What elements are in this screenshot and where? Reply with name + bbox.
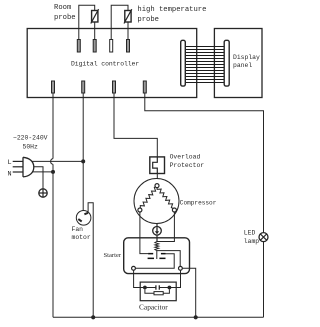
starter node B wire to right terminal bbox=[157, 251, 180, 267]
top pin 1 bbox=[77, 40, 80, 53]
fan motor hook wire bbox=[88, 203, 93, 317]
room probe loop wire bbox=[79, 5, 95, 39]
wire L to junction bbox=[32, 160, 84, 162]
wire right terminal to bottom rail bbox=[182, 268, 195, 317]
wire protector to compressor bbox=[156, 174, 158, 184]
starter bottom-left terminal bbox=[132, 266, 136, 270]
svg-text:lamp: lamp bbox=[244, 238, 260, 245]
compressor right terminal bbox=[172, 208, 176, 212]
wire pin2 down to fan motor bbox=[82, 93, 84, 211]
bottom pin 1 bbox=[52, 81, 55, 93]
starter center contact stem bbox=[156, 251, 158, 259]
bottom rail bbox=[53, 316, 264, 318]
ribbon cable wires bbox=[185, 47, 224, 83]
room probe sensor bbox=[92, 11, 98, 23]
starter bottom-right terminal bbox=[179, 266, 183, 270]
svg-text:Capacitor: Capacitor bbox=[139, 303, 168, 312]
fan motor circle bbox=[76, 211, 91, 226]
svg-text:L: L bbox=[8, 159, 12, 167]
wire starter right terminal to capacitor bbox=[169, 270, 180, 287]
svg-text:Starter: Starter bbox=[104, 252, 122, 259]
winding right bbox=[157, 187, 174, 209]
svg-text:~220-240V: ~220-240V bbox=[13, 135, 48, 142]
upper fixed contact left bbox=[148, 253, 153, 255]
high temp probe loop wire bbox=[111, 5, 128, 39]
svg-text:panel: panel bbox=[233, 62, 252, 69]
wire earth bbox=[34, 167, 44, 189]
fan motor brushes bbox=[84, 213, 88, 215]
svg-text:high temperature: high temperature bbox=[137, 6, 206, 14]
plug prong L bbox=[13, 160, 23, 162]
junction dot L bbox=[81, 159, 85, 163]
bottom pin 4 bbox=[143, 81, 146, 93]
compressor circle bbox=[134, 179, 179, 224]
high temp probe sensor bbox=[125, 11, 131, 23]
wire upper right contact to bottom-left terminal bbox=[135, 254, 174, 269]
upper fixed contact right bbox=[161, 253, 166, 255]
wire pin3 to overload protector bbox=[114, 93, 157, 157]
wire N to junction bbox=[32, 171, 53, 173]
junction dot starter bbox=[194, 315, 198, 319]
svg-text:Overload: Overload bbox=[170, 154, 201, 161]
svg-text:Compressor: Compressor bbox=[180, 199, 217, 206]
top pin 2 bbox=[93, 40, 96, 53]
bottom pin 3 bbox=[113, 81, 116, 93]
ribbon connector right bar bbox=[224, 40, 229, 86]
svg-text:Digital controller: Digital controller bbox=[71, 61, 139, 68]
bleed resistor bbox=[145, 289, 154, 293]
starter PTC zigzag bbox=[155, 242, 159, 251]
earth symbol bbox=[39, 189, 47, 197]
plug prong earth bbox=[13, 166, 23, 168]
junction dot fan bbox=[91, 315, 95, 319]
LED lamp bbox=[259, 233, 268, 242]
wire starter left terminal to capacitor bbox=[134, 270, 145, 287]
digital controller box bbox=[27, 29, 197, 98]
ribbon connector left bar bbox=[181, 40, 186, 86]
svg-text:Display: Display bbox=[233, 54, 260, 61]
svg-text:probe: probe bbox=[54, 14, 76, 22]
wire pin4 to LED lamp bbox=[145, 93, 264, 233]
lower moving contact right bbox=[159, 258, 165, 260]
wire compressor right terminal into starter bbox=[157, 212, 175, 242]
svg-text:N: N bbox=[8, 170, 12, 178]
starter box bbox=[124, 238, 190, 274]
top pin 3 bbox=[110, 40, 113, 53]
plug prong N bbox=[13, 171, 23, 173]
compressor top terminal bbox=[155, 184, 159, 188]
wire pin1 down with hop bbox=[52, 93, 54, 159]
bottom pin 2 bbox=[82, 81, 85, 93]
svg-text:probe: probe bbox=[137, 16, 159, 24]
capacitor element bbox=[145, 287, 156, 289]
lower moving contact left bbox=[148, 258, 154, 260]
wire compressor left terminal into starter bbox=[140, 212, 148, 254]
capacitor box bbox=[140, 282, 176, 301]
display panel box bbox=[214, 29, 262, 98]
svg-text:Room: Room bbox=[54, 4, 71, 12]
svg-text:Fan: Fan bbox=[72, 226, 84, 233]
svg-text:Protector: Protector bbox=[170, 162, 205, 169]
overload protector bbox=[150, 157, 165, 174]
junction dot N bbox=[51, 170, 55, 174]
plug body bbox=[23, 157, 34, 177]
compressor shell earth symbol bbox=[156, 224, 158, 227]
compressor left terminal bbox=[138, 208, 142, 212]
top pin 4 bbox=[127, 40, 130, 53]
svg-text:50Hz: 50Hz bbox=[23, 143, 39, 150]
svg-text:LED: LED bbox=[244, 230, 256, 237]
svg-text:motor: motor bbox=[72, 234, 91, 241]
winding left bbox=[140, 187, 157, 209]
capacitor node dots bbox=[143, 286, 147, 290]
